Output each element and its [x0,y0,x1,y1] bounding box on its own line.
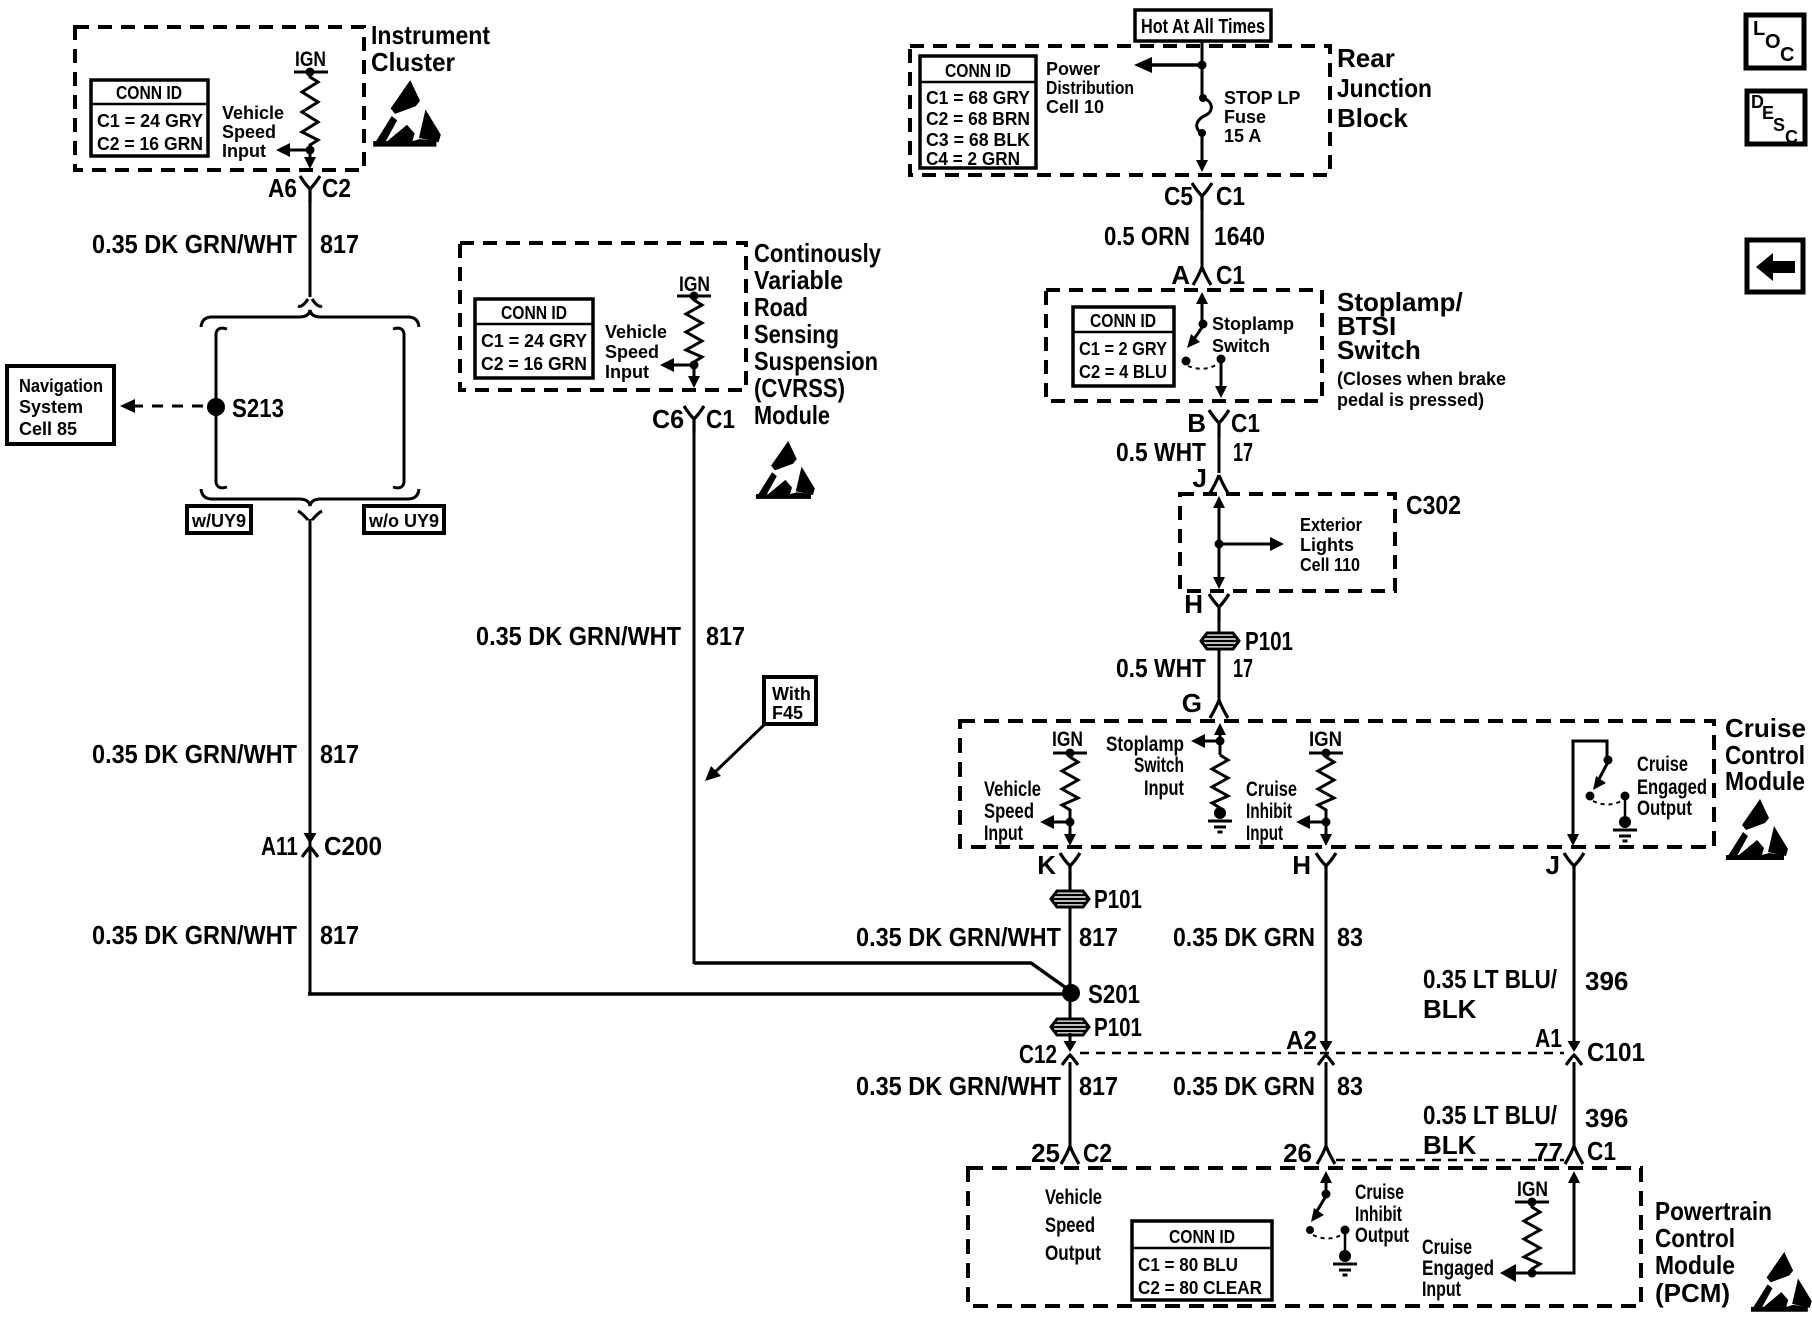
svg-text:817: 817 [320,739,359,769]
svg-text:Engaged: Engaged [1422,1257,1494,1280]
svg-text:Cell 110: Cell 110 [1300,555,1360,575]
svg-text:S201: S201 [1088,979,1140,1009]
CVRSS module dashed box [460,243,746,390]
junction dot [1528,1269,1537,1278]
svg-text:Powertrain: Powertrain [1655,1196,1772,1226]
switch cruise inhibit (movable arm) [1322,1190,1331,1199]
svg-text:Hot At All Times: Hot At All Times [1141,16,1265,38]
svg-text:Input: Input [1144,777,1184,800]
wire arrow left Cruise Inhibit Input [1308,821,1326,824]
ground (cruise inhibit output) [1333,1250,1357,1275]
dashed connector line PCM C1 [1336,1159,1564,1162]
svg-text:Module: Module [1655,1250,1735,1280]
svg-text:A6: A6 [268,173,297,203]
wire arrow down to pin A6 [309,150,312,160]
svg-text:C1: C1 [1216,260,1245,290]
wire 817 to pin 25 [1069,1062,1072,1148]
resistor (cruise engaged input pull-up) [1524,1202,1540,1273]
svg-text:C4 = 2 GRN: C4 = 2 GRN [926,149,1020,169]
svg-text:CONN ID: CONN ID [1169,1227,1235,1247]
svg-text:Distribution: Distribution [1046,78,1134,98]
LOC reference box [1746,15,1804,68]
wire to P101 [1218,616,1221,700]
svg-text:817: 817 [1079,922,1118,952]
svg-text:396: 396 [1585,966,1628,996]
svg-text:Input: Input [222,141,266,161]
wire arrow left to Vehicle Speed Input [286,149,310,152]
dashed throw arc [1313,1235,1341,1239]
svg-text:0.35 DK GRN: 0.35 DK GRN [1173,922,1315,952]
svg-text:Vehicle: Vehicle [1045,1186,1102,1209]
resistor (stoplamp switch input pull-down) [1212,755,1228,808]
wire 817 from CVRSS [693,430,696,964]
svg-text:Exterior: Exterior [1300,515,1362,535]
wire arrow left Vehicle Speed Input [1052,821,1070,824]
svg-text:(CVRSS): (CVRSS) [754,373,845,403]
svg-text:Module: Module [754,400,830,430]
ESD symbol (CCM) [1726,799,1788,860]
option brace bottom [201,489,419,506]
instrument cluster dashed box [75,27,364,170]
svg-text:A: A [1171,260,1190,290]
svg-text:With: With [772,684,811,704]
svg-text:IGN: IGN [1052,728,1083,751]
wire arrow left Cruise Engaged Input [1514,1272,1532,1275]
svg-text:C1: C1 [1587,1136,1616,1166]
svg-text:C101: C101 [1587,1037,1645,1067]
svg-text:Engaged: Engaged [1637,776,1707,799]
wire arrow left Stoplamp Switch Input [1203,740,1220,743]
svg-text:Suspension: Suspension [754,346,878,376]
junction dot [306,146,315,155]
wire 396 J column [1573,875,1576,1042]
switch cruise engaged (movable arm) [1604,756,1613,765]
svg-text:25: 25 [1031,1138,1060,1168]
svg-text:Stoplamp: Stoplamp [1106,733,1184,756]
ESD symbol (instrument cluster) [373,80,441,146]
svg-text:817: 817 [320,920,359,950]
svg-text:C2 = 4 BLU: C2 = 4 BLU [1079,362,1167,382]
svg-text:w/UY9: w/UY9 [191,511,246,531]
svg-text:pedal is pressed): pedal is pressed) [1337,390,1484,410]
svg-text:C2: C2 [1083,1138,1112,1168]
svg-text:17: 17 [1233,437,1253,467]
svg-text:C5: C5 [1164,181,1193,211]
junction dot [1215,540,1224,549]
svg-text:1640: 1640 [1214,221,1265,251]
svg-text:Block: Block [1337,103,1408,133]
svg-text:A11: A11 [261,831,298,861]
svg-text:C3 = 68 BLK: C3 = 68 BLK [926,130,1030,150]
svg-text:H: H [1292,850,1311,880]
wire 396 to pin 77 [1573,1062,1576,1148]
svg-text:Cell 85: Cell 85 [19,419,77,439]
wire 17 [1218,434,1221,473]
svg-text:Output: Output [1045,1242,1101,1265]
wire arrow up into CCM at pin G [1219,733,1222,755]
option tag With F45 [764,677,816,724]
svg-text:CONN ID: CONN ID [501,303,567,323]
svg-text:STOP LP: STOP LP [1224,88,1300,108]
wire 817 from instrument cluster [309,199,312,297]
wire 1640 [1201,207,1204,270]
svg-text:Input: Input [984,822,1023,845]
svg-text:Module: Module [1725,766,1805,796]
inline connector A2 [1318,1033,1334,1065]
svg-text:26: 26 [1283,1138,1312,1168]
switch contact right [1217,355,1226,364]
svg-text:Navigation: Navigation [19,376,103,396]
svg-text:(Closes when brake: (Closes when brake [1337,369,1506,389]
wire arrow left to Power Distribution [1148,63,1202,67]
dashed throw arc [1188,365,1216,369]
resistor (instrument cluster VSS pull-up) [302,72,318,150]
svg-text:Speed: Speed [605,342,659,362]
junction dot [1322,818,1331,827]
grommet P101 [1201,633,1239,649]
wire arrow down out of box to pin B [1220,361,1223,386]
svg-text:Inhibit: Inhibit [1246,800,1292,823]
junction dot [1198,61,1207,70]
wire w/o UY9 branch [393,328,404,488]
svg-text:Rear: Rear [1337,43,1395,73]
svg-text:System: System [19,397,83,417]
svg-text:0.35 DK GRN/WHT: 0.35 DK GRN/WHT [92,920,297,950]
svg-text:Input: Input [1246,822,1283,845]
wire arrow down out of C302 [1213,577,1225,589]
ESD symbol (PCM) [1751,1252,1812,1312]
Powertrain Control Module dashed box [968,1168,1641,1306]
wire arrow up inside C302 [1218,506,1221,585]
Navigation System Cell 85 box [7,366,114,444]
svg-text:C1 = 2 GRY: C1 = 2 GRY [1079,339,1167,359]
svg-text:Fuse: Fuse [1224,107,1266,127]
wire arrow up into pin 26 [1325,1181,1328,1194]
wire continuation marker [298,511,322,520]
ground (cruise engaged output) [1613,816,1637,841]
option tag w/o UY9 [364,506,444,533]
junction dot [1066,818,1075,827]
ground (stoplamp switch input) [1208,807,1232,832]
wire arrow up into box [1201,302,1204,324]
dashed throw arc [1593,801,1621,805]
svg-text:w/o UY9: w/o UY9 [368,511,439,531]
wire arrow down to pin K [1069,822,1072,834]
grommet P101 (upper) [1051,891,1089,907]
svg-text:S: S [1773,115,1785,135]
ESD symbol (CVRSS) [756,441,815,499]
svg-text:Input: Input [605,362,649,382]
DESC reference box [1747,91,1805,147]
svg-text:A2: A2 [1286,1025,1317,1055]
connector table CONN ID (rear junction block) [920,56,1036,169]
resistor (cruise inhibit input pull-up) [1318,753,1334,820]
Stoplamp/BTSI switch dashed box [1046,290,1322,401]
switch contact right over ground [1621,792,1630,801]
svg-text:P101: P101 [1094,884,1142,914]
svg-text:IGN: IGN [1309,728,1342,751]
svg-text:C1 = 80 BLU: C1 = 80 BLU [1138,1255,1238,1275]
svg-text:BLK: BLK [1423,1130,1477,1160]
svg-text:Sensing: Sensing [754,319,839,349]
svg-text:Cluster: Cluster [371,47,455,77]
svg-text:Output: Output [1637,797,1692,820]
svg-text:C1 = 24 GRY: C1 = 24 GRY [481,331,587,351]
wire 83 to pin 26 [1325,1062,1328,1148]
connector table CONN ID (instrument cluster) [91,80,208,156]
svg-text:C1 = 68 GRY: C1 = 68 GRY [926,88,1030,108]
svg-text:Cruise: Cruise [1725,713,1806,743]
svg-text:C2 = 16 GRN: C2 = 16 GRN [97,134,203,154]
svg-text:0.35 DK GRN/WHT: 0.35 DK GRN/WHT [476,621,681,651]
svg-text:B: B [1187,408,1206,438]
svg-text:Variable: Variable [754,265,843,295]
svg-text:0.35 LT BLU/: 0.35 LT BLU/ [1423,1100,1557,1130]
wire w/UY9 branch [216,328,227,488]
svg-text:Speed: Speed [222,122,276,142]
svg-text:77: 77 [1534,1137,1563,1167]
connector table CONN ID (CVRSS) [475,299,593,378]
svg-text:Output: Output [1355,1224,1409,1247]
svg-text:Continously: Continously [754,238,881,268]
svg-text:Cruise: Cruise [1355,1181,1404,1204]
svg-text:C1 = 24 GRY: C1 = 24 GRY [97,111,203,131]
svg-text:K: K [1037,850,1056,880]
svg-text:CONN ID: CONN ID [1090,311,1156,331]
svg-text:C1: C1 [706,404,735,434]
svg-text:Switch: Switch [1134,754,1184,777]
switch fixed contact left [1182,357,1191,366]
arrow from With F45 tag to wire [713,725,764,774]
switch fixed contact left [1306,1226,1314,1234]
connector table CONN ID (stoplamp switch) [1073,307,1174,386]
wire arrow right to Exterior Lights [1219,543,1272,546]
C302 dashed box [1180,494,1395,591]
svg-text:Road: Road [754,292,808,322]
wire cruise engaged output [1573,741,1607,838]
wire arrow down to pin C6 [693,365,696,378]
grommet P101 (lower) [1051,1019,1089,1035]
switch fixed contact left [1586,792,1595,801]
svg-text:Speed: Speed [1045,1214,1095,1237]
svg-text:P101: P101 [1094,1012,1142,1042]
svg-text:C2 = 80 CLEAR: C2 = 80 CLEAR [1138,1278,1262,1298]
svg-text:J: J [1546,850,1560,880]
svg-text:A1: A1 [1535,1023,1562,1053]
svg-text:S213: S213 [232,393,284,423]
svg-text:P101: P101 [1245,626,1293,656]
svg-text:Cruise: Cruise [1637,753,1688,776]
svg-text:0.35 DK GRN/WHT: 0.35 DK GRN/WHT [856,922,1061,952]
svg-text:C2 = 16 GRN: C2 = 16 GRN [481,354,587,374]
back arrow box [1747,240,1803,292]
wire horizontal run from CVRSS to S201 [694,963,1069,990]
wire 817 to S201 [1069,908,1072,1018]
svg-text:H: H [1184,589,1203,619]
switch stoplamp (movable arm) [1199,320,1208,329]
fuse STOP LP 15A [1197,88,1301,146]
svg-text:817: 817 [1079,1071,1118,1101]
option brace top [201,310,419,327]
splice S201 [1062,984,1080,1002]
svg-text:Switch: Switch [1337,335,1421,365]
svg-text:83: 83 [1337,922,1363,952]
svg-text:Switch: Switch [1212,336,1270,356]
wire 817 down left column [309,519,312,994]
wire arrow left to Vehicle Speed Input [670,364,694,367]
svg-text:Speed: Speed [984,800,1034,823]
wire from pin 77 down and left [1532,1180,1574,1273]
svg-text:Cell 10: Cell 10 [1046,97,1104,117]
svg-text:817: 817 [320,229,359,259]
resistor (CVRSS VSS pull-up) [686,296,702,365]
svg-text:L: L [1753,18,1765,40]
svg-text:Vehicle: Vehicle [984,778,1041,801]
svg-text:Vehicle: Vehicle [605,322,667,342]
option tag w/UY9 [187,506,251,533]
svg-text:C1: C1 [1216,181,1245,211]
svg-text:0.5 WHT: 0.5 WHT [1116,653,1206,683]
svg-text:F45: F45 [772,703,803,723]
wire from Hot At All Times [1201,41,1204,97]
svg-text:G: G [1182,688,1202,718]
svg-text:0.35 DK GRN/WHT: 0.35 DK GRN/WHT [856,1071,1061,1101]
svg-text:C6: C6 [652,404,684,434]
splice S213 [207,398,225,416]
svg-text:817: 817 [706,621,745,651]
switch contact right over ground [1341,1226,1350,1235]
junction dot [690,361,699,370]
svg-text:Input: Input [1422,1278,1461,1301]
svg-text:0.35 DK GRN/WHT: 0.35 DK GRN/WHT [92,739,297,769]
wire arrow down to C5 [1201,133,1204,160]
svg-text:Vehicle: Vehicle [222,103,284,123]
inline connector C12 [1069,1036,1072,1040]
wire end option marker [298,299,322,306]
svg-text:Lights: Lights [1300,535,1354,555]
svg-text:C: C [1785,127,1798,147]
svg-text:83: 83 [1337,1071,1363,1101]
inline connector A1 / C101 [1566,1033,1582,1065]
wire arrow down to pin H [1325,822,1328,834]
svg-text:C302: C302 [1406,490,1461,520]
connector table CONN ID (PCM) [1132,1221,1272,1300]
svg-text:C2 = 68 BRN: C2 = 68 BRN [926,109,1030,129]
Cruise Control Module dashed box [960,721,1714,847]
svg-text:17: 17 [1233,653,1253,683]
wire horizontal run to S201 [308,992,1069,996]
svg-text:(PCM): (PCM) [1655,1278,1730,1308]
svg-text:C2: C2 [322,173,351,203]
dashed connector line C101 level [1080,1052,1564,1055]
svg-text:Cruise: Cruise [1422,1236,1472,1259]
Hot At All Times tag [1135,10,1271,41]
svg-text:O: O [1765,31,1781,53]
svg-text:Instrument: Instrument [371,20,490,50]
svg-text:Inhibit: Inhibit [1355,1203,1402,1226]
svg-text:0.35 DK GRN/WHT: 0.35 DK GRN/WHT [92,229,297,259]
resistor (vehicle speed input pull-up) [1062,753,1078,820]
svg-text:Stoplamp: Stoplamp [1212,314,1294,334]
svg-text:Power: Power [1046,59,1100,79]
dashed wire to Navigation System [132,405,209,408]
svg-text:CONN ID: CONN ID [945,61,1011,81]
svg-text:C200: C200 [324,831,382,861]
Rear Junction Block dashed box [910,46,1330,175]
svg-text:J: J [1193,463,1207,493]
svg-text:CONN ID: CONN ID [116,83,182,103]
wire 83 H column [1325,875,1328,1042]
svg-text:396: 396 [1585,1103,1628,1133]
svg-text:0.35 DK GRN: 0.35 DK GRN [1173,1071,1315,1101]
svg-text:0.35 LT BLU/: 0.35 LT BLU/ [1423,964,1557,994]
svg-text:0.5 ORN: 0.5 ORN [1104,221,1190,251]
svg-text:Junction: Junction [1337,73,1432,103]
svg-text:Control: Control [1655,1223,1735,1253]
svg-text:C1: C1 [1231,408,1260,438]
svg-text:15 A: 15 A [1224,126,1261,146]
wire K to P101 [1069,875,1072,891]
svg-text:Cruise: Cruise [1246,778,1297,801]
inline connector A11 C200 [302,825,318,857]
svg-text:C: C [1780,44,1794,66]
svg-text:C12: C12 [1019,1039,1057,1069]
svg-text:BLK: BLK [1423,994,1477,1024]
